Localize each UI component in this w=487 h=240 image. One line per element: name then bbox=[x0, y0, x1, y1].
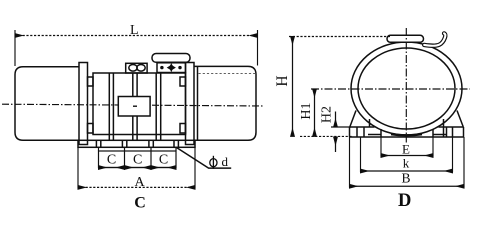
tab upper-right bbox=[180, 77, 186, 86]
svg-text:B: B bbox=[401, 171, 410, 186]
bolt slot 4 bbox=[173, 140, 175, 147]
lifting hook core bbox=[424, 33, 445, 45]
end view base plate bbox=[350, 126, 375, 128]
nameplate bbox=[157, 63, 186, 73]
center mark bbox=[133, 105, 137, 107]
bolt slot 2 bbox=[121, 140, 123, 147]
lug circle 2 bbox=[137, 65, 145, 72]
top cover pill bbox=[152, 54, 190, 63]
svg-text:k: k bbox=[403, 156, 410, 171]
end view: outer shell bbox=[351, 42, 462, 135]
dimension E bbox=[380, 137, 382, 157]
dimension L bbox=[14, 30, 16, 66]
dimension k bbox=[360, 137, 362, 172]
body rib pair 3 bbox=[155, 73, 157, 140]
body rib pair 2 (through center box) bbox=[132, 73, 134, 97]
right end cap bbox=[195, 66, 257, 140]
bolt slot 3 bbox=[148, 140, 150, 147]
right gusset bbox=[457, 111, 463, 128]
dimension H bbox=[289, 36, 390, 38]
center gear box bbox=[118, 97, 150, 117]
tab upper-left bbox=[88, 77, 94, 86]
dimension H2 bbox=[331, 126, 351, 128]
nameplate star bbox=[167, 63, 176, 72]
tab lower-left bbox=[88, 124, 94, 134]
vertical centerline end view bbox=[405, 28, 407, 143]
base plate left view bbox=[78, 140, 195, 147]
base slot right bbox=[446, 127, 448, 137]
svg-text:C: C bbox=[159, 153, 168, 168]
dimension chain C C C bbox=[99, 151, 177, 168]
dimension B bbox=[349, 137, 351, 188]
svg-text:C: C bbox=[133, 153, 142, 168]
leader phi-d bbox=[177, 148, 232, 169]
outer shell bottom arc shade bbox=[391, 134, 422, 135]
horizontal centerline end view bbox=[311, 88, 470, 90]
svg-text:H2: H2 bbox=[320, 106, 335, 123]
hidden weight edge right cap bbox=[199, 72, 256, 74]
left flange bbox=[79, 63, 88, 145]
lifting lug box bbox=[126, 63, 147, 73]
svg-text:d: d bbox=[222, 154, 229, 169]
right gusset inner edge bbox=[443, 119, 445, 137]
svg-text:L: L bbox=[130, 23, 139, 38]
svg-text:H1: H1 bbox=[299, 102, 314, 119]
right cap crimp edge bbox=[197, 66, 199, 140]
svg-text:D: D bbox=[398, 191, 411, 211]
left gusset inner edge bbox=[369, 119, 371, 127]
svg-text:H: H bbox=[274, 75, 291, 86]
tab lower-right bbox=[180, 124, 186, 134]
base slot left bbox=[356, 127, 358, 137]
lug circle 1 bbox=[129, 65, 137, 72]
end view top pill bbox=[387, 35, 424, 42]
svg-text:C: C bbox=[107, 153, 116, 168]
motor body bbox=[93, 73, 186, 135]
centerline left view bbox=[2, 104, 263, 106]
left gusset bbox=[350, 111, 356, 128]
nameplate bolt left bbox=[160, 66, 163, 69]
E opening edge left bbox=[380, 129, 382, 137]
dimension A bbox=[77, 148, 79, 189]
label phi d bbox=[210, 156, 217, 169]
dimension H1 bbox=[314, 89, 316, 136]
svg-text:A: A bbox=[134, 175, 145, 190]
lifting hook outline bbox=[424, 33, 445, 45]
svg-text:E: E bbox=[402, 141, 410, 156]
right flange bbox=[186, 63, 195, 145]
nameplate bolt right bbox=[178, 66, 181, 69]
E opening ledge right bbox=[433, 134, 446, 136]
E opening ledge left bbox=[368, 134, 381, 136]
svg-text:C: C bbox=[134, 195, 146, 212]
end view: inner shell bbox=[358, 48, 455, 129]
E opening edge right bbox=[432, 129, 434, 137]
bolt slot 1 bbox=[95, 140, 97, 147]
left end cap bbox=[15, 67, 79, 141]
body rib pair 1 bbox=[108, 73, 110, 140]
